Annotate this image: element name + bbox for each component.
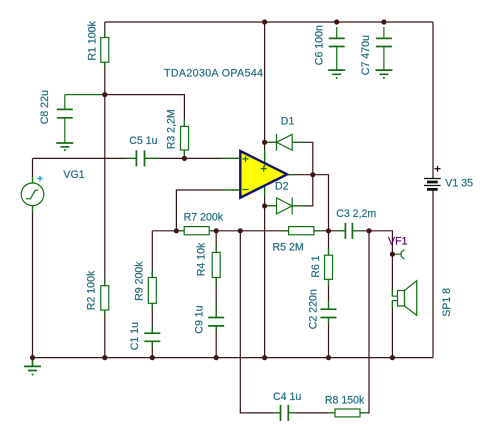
svg-text:D1: D1 xyxy=(281,116,295,128)
svg-text:R4 10k: R4 10k xyxy=(196,242,208,276)
svg-text:R1 100k: R1 100k xyxy=(87,20,99,60)
svg-text:C7 470u: C7 470u xyxy=(360,35,372,75)
svg-text:R5 2M: R5 2M xyxy=(273,241,304,253)
svg-text:C5 1u: C5 1u xyxy=(129,135,157,147)
svg-text:C6 100n: C6 100n xyxy=(314,25,326,65)
svg-text:C3 2,2m: C3 2,2m xyxy=(336,208,376,220)
svg-text:TDA2030A OPA544: TDA2030A OPA544 xyxy=(164,67,263,79)
svg-text:VF1: VF1 xyxy=(388,236,408,248)
svg-text:D2: D2 xyxy=(275,180,289,192)
svg-text:SP1 8: SP1 8 xyxy=(441,288,453,317)
svg-text:C4 1u: C4 1u xyxy=(273,391,301,403)
svg-text:R2 100k: R2 100k xyxy=(85,270,97,310)
svg-text:C9 1u: C9 1u xyxy=(194,305,206,333)
svg-text:VG1: VG1 xyxy=(63,169,84,181)
svg-text:R7 200k: R7 200k xyxy=(184,211,224,223)
svg-text:C2 220n: C2 220n xyxy=(308,289,320,329)
svg-text:C8 22u: C8 22u xyxy=(39,90,51,124)
svg-text:C1 1u: C1 1u xyxy=(129,322,141,350)
svg-text:R6 1: R6 1 xyxy=(310,255,322,277)
svg-text:R9 200k: R9 200k xyxy=(134,261,146,301)
svg-text:R8 150k: R8 150k xyxy=(325,395,365,407)
svg-text:R3 2,2M: R3 2,2M xyxy=(166,109,178,149)
svg-text:V1 35: V1 35 xyxy=(445,177,473,189)
